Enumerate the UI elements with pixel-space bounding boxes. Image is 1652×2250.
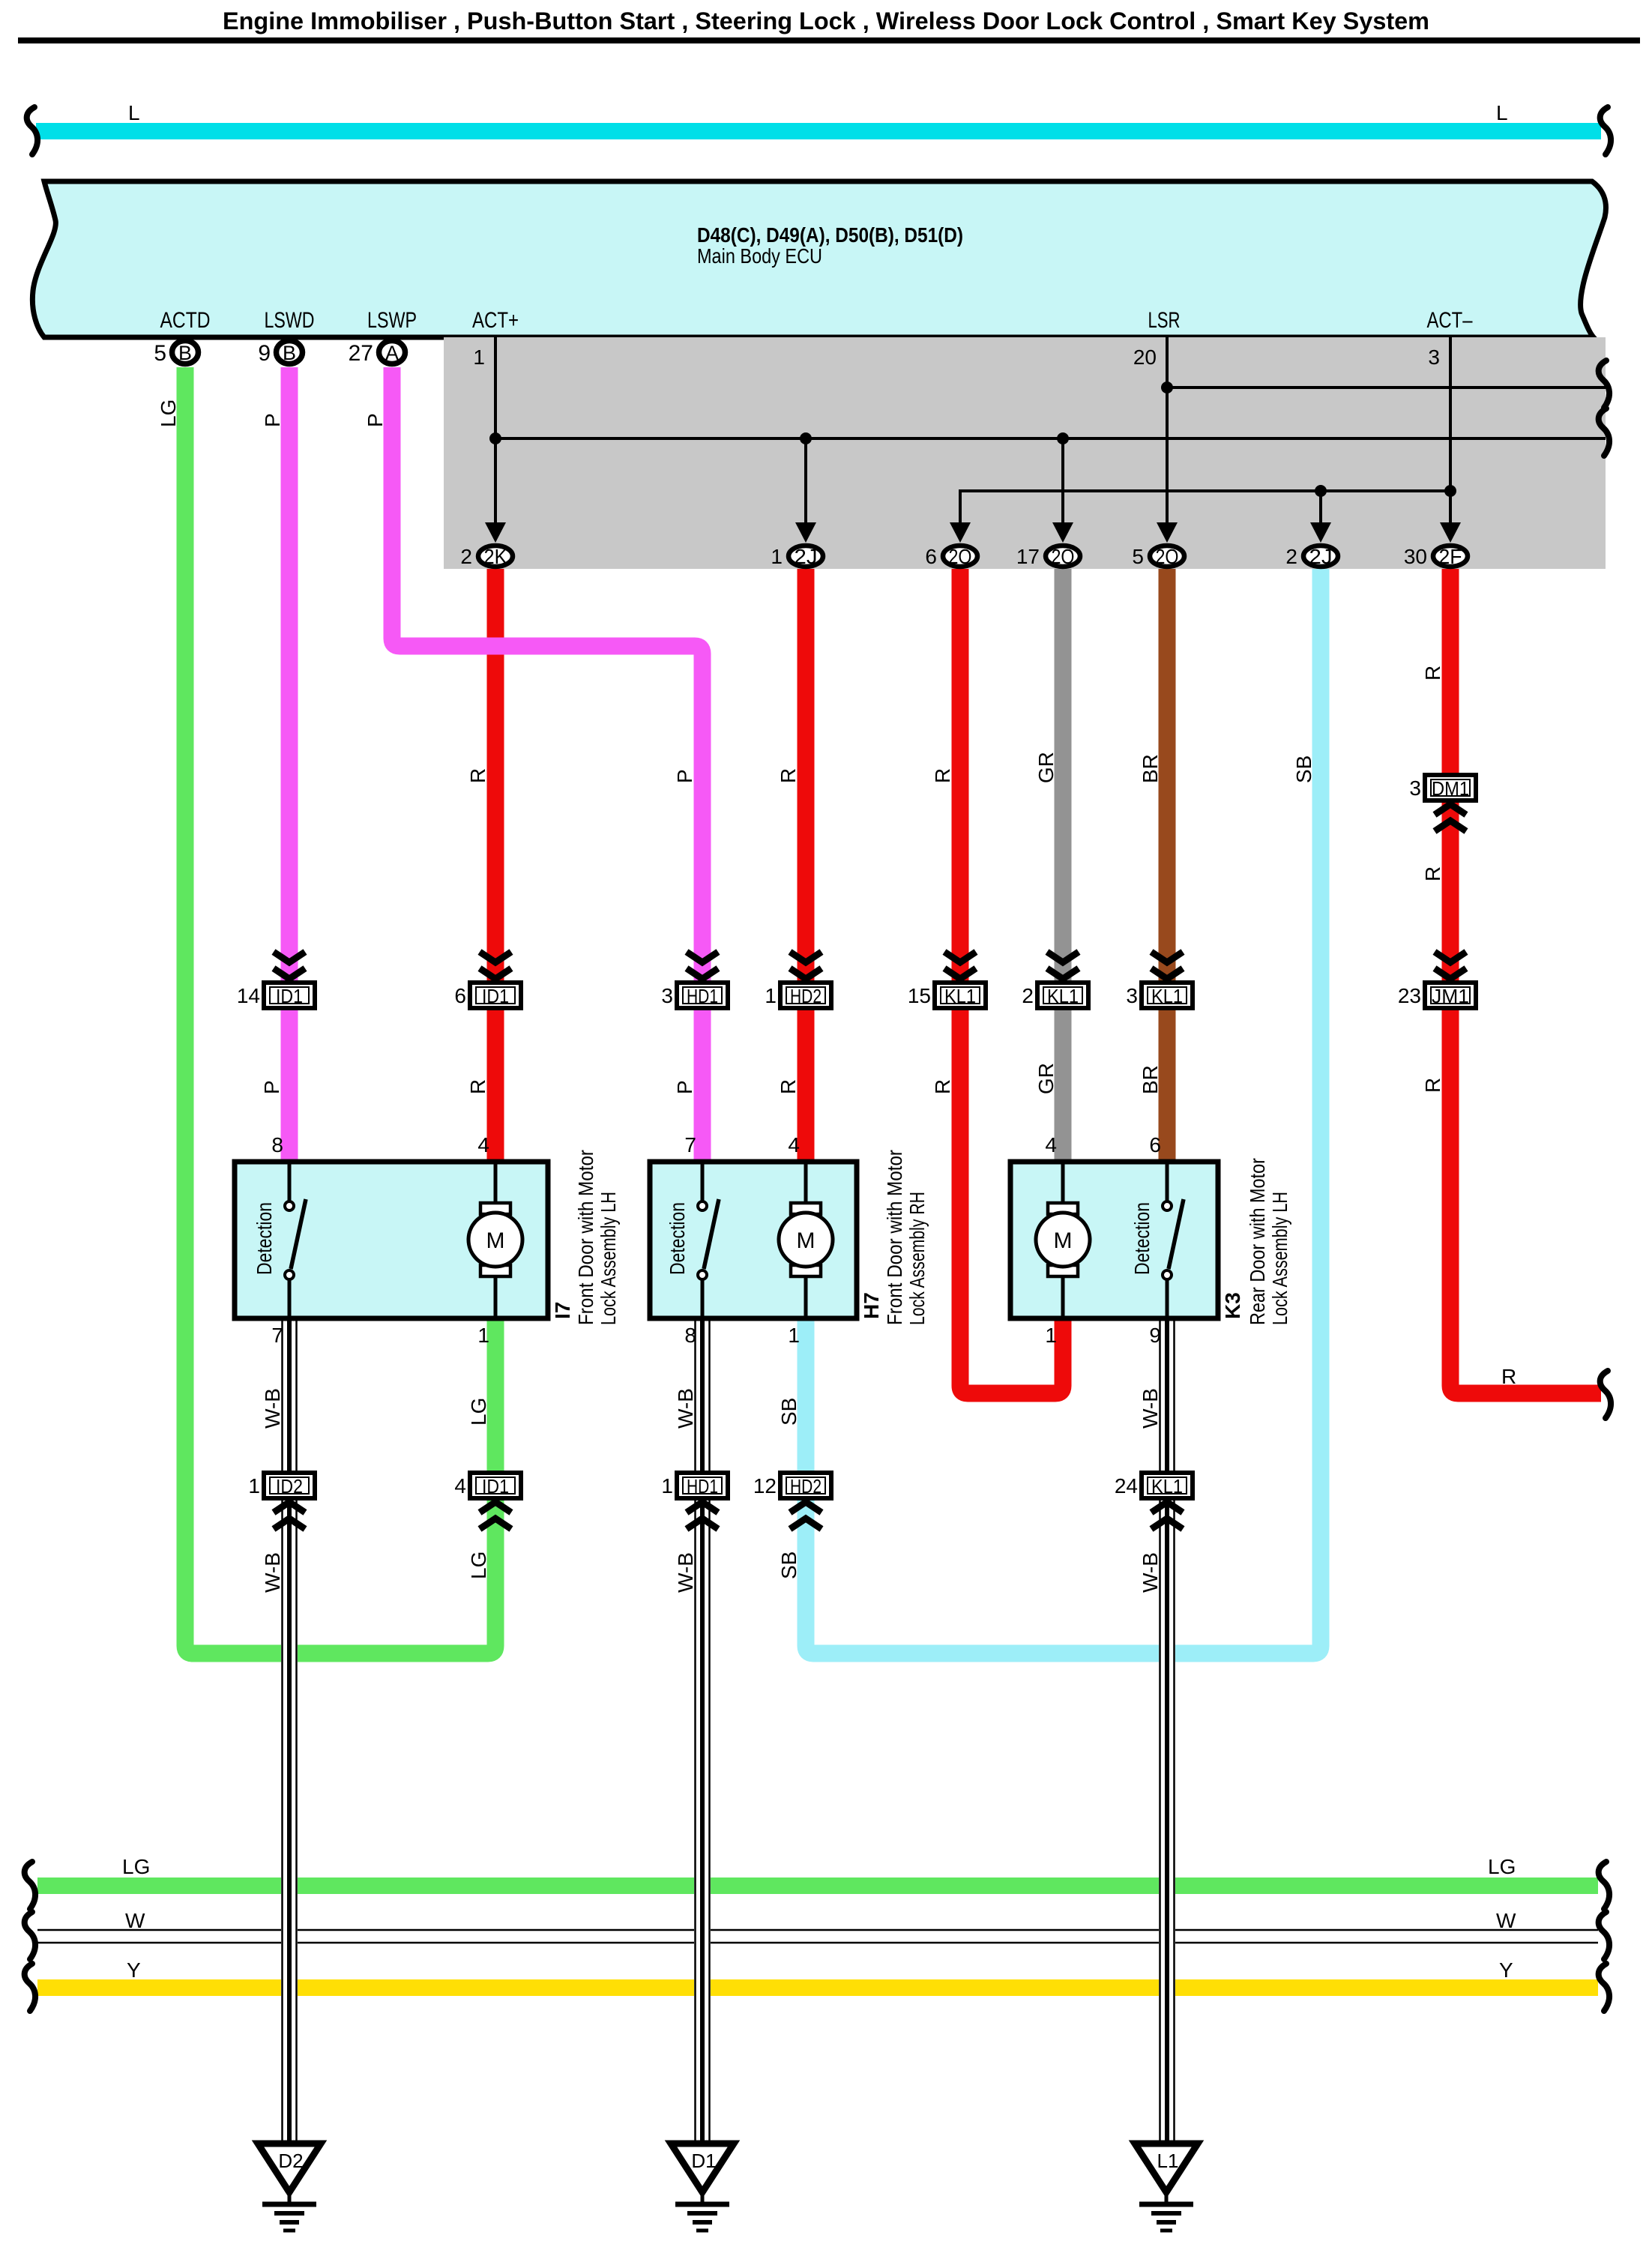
svg-text:R: R [931, 1079, 954, 1094]
svg-text:P: P [261, 413, 284, 427]
svg-text:P: P [364, 413, 387, 427]
svg-text:ACT–: ACT– [1427, 308, 1473, 333]
svg-text:1: 1 [248, 1474, 260, 1498]
svg-text:5: 5 [154, 341, 166, 366]
svg-text:D2: D2 [278, 2150, 303, 2172]
svg-text:L: L [1496, 101, 1508, 124]
svg-text:7: 7 [684, 1133, 696, 1156]
svg-text:5: 5 [1132, 545, 1144, 568]
svg-text:2O: 2O [1052, 545, 1075, 568]
svg-text:M: M [1054, 1228, 1073, 1253]
svg-text:Engine Immobiliser , Push-Butt: Engine Immobiliser , Push-Button Start ,… [223, 7, 1429, 34]
svg-text:W-B: W-B [261, 1388, 284, 1429]
svg-text:3: 3 [1409, 776, 1421, 800]
svg-text:30: 30 [1404, 545, 1427, 568]
svg-text:HD1: HD1 [687, 1475, 718, 1498]
svg-text:4: 4 [788, 1133, 800, 1156]
svg-text:R: R [1421, 666, 1444, 681]
svg-text:GR: GR [1034, 1063, 1058, 1094]
svg-text:W: W [1496, 1909, 1516, 1932]
svg-text:D1: D1 [691, 2150, 716, 2172]
svg-text:LSWP: LSWP [367, 308, 417, 333]
svg-text:ID1: ID1 [276, 985, 303, 1007]
svg-text:9: 9 [1149, 1324, 1161, 1347]
svg-text:Front Door with Motor: Front Door with Motor [574, 1150, 597, 1325]
svg-text:4: 4 [477, 1133, 489, 1156]
svg-text:Y: Y [127, 1958, 141, 1982]
svg-text:3: 3 [1126, 984, 1138, 1007]
svg-text:B: B [178, 342, 192, 364]
svg-text:6: 6 [925, 545, 937, 568]
svg-text:W-B: W-B [674, 1388, 697, 1429]
svg-text:LG: LG [467, 1398, 490, 1426]
svg-text:2O: 2O [1156, 545, 1179, 568]
svg-text:1: 1 [477, 1324, 489, 1347]
svg-text:R: R [1501, 1365, 1516, 1388]
svg-text:LSR: LSR [1148, 308, 1181, 333]
svg-text:DM1: DM1 [1432, 777, 1469, 800]
svg-text:L: L [128, 101, 140, 124]
svg-text:12: 12 [753, 1474, 777, 1498]
svg-text:HD2: HD2 [790, 1475, 822, 1498]
svg-text:Main Body ECU: Main Body ECU [697, 244, 822, 268]
svg-text:6: 6 [1149, 1133, 1161, 1156]
svg-text:6: 6 [454, 984, 466, 1007]
svg-text:JM1: JM1 [1432, 985, 1469, 1007]
svg-text:Detection: Detection [1130, 1202, 1154, 1275]
svg-text:Lock Assembly RH: Lock Assembly RH [905, 1192, 929, 1325]
svg-text:ID2: ID2 [276, 1475, 303, 1498]
svg-text:KL1: KL1 [944, 985, 976, 1007]
svg-text:24: 24 [1115, 1474, 1138, 1498]
svg-text:Lock Assembly LH: Lock Assembly LH [597, 1192, 620, 1325]
svg-text:R: R [777, 1079, 800, 1094]
svg-text:ID1: ID1 [482, 985, 509, 1007]
svg-text:2F: 2F [1439, 545, 1462, 568]
svg-text:KL1: KL1 [1151, 985, 1183, 1007]
svg-text:8: 8 [271, 1133, 283, 1156]
svg-text:2O: 2O [949, 545, 972, 568]
svg-text:A: A [385, 342, 399, 364]
svg-text:2: 2 [1285, 545, 1297, 568]
svg-text:Detection: Detection [253, 1202, 276, 1275]
svg-text:SB: SB [1292, 755, 1315, 783]
svg-text:LSWD: LSWD [265, 308, 315, 333]
svg-text:R: R [1421, 1078, 1444, 1093]
svg-text:Front Door with Motor: Front Door with Motor [883, 1150, 906, 1325]
svg-text:3: 3 [1428, 346, 1440, 369]
svg-text:M: M [797, 1228, 816, 1253]
svg-text:BR: BR [1139, 1065, 1162, 1094]
svg-text:ACT+: ACT+ [472, 308, 519, 333]
svg-text:Lock Assembly LH: Lock Assembly LH [1268, 1192, 1291, 1325]
svg-text:LG: LG [1488, 1855, 1516, 1878]
svg-text:2J: 2J [795, 545, 818, 568]
svg-text:1: 1 [1045, 1324, 1057, 1347]
svg-text:K3: K3 [1221, 1292, 1244, 1319]
svg-text:2J: 2J [1309, 545, 1333, 568]
svg-text:HD2: HD2 [790, 985, 822, 1007]
svg-text:KL1: KL1 [1151, 1475, 1183, 1498]
svg-text:GR: GR [1034, 752, 1058, 783]
svg-text:2K: 2K [484, 545, 507, 568]
svg-text:14: 14 [237, 984, 260, 1007]
svg-text:R: R [466, 1079, 489, 1094]
svg-text:2: 2 [460, 545, 472, 568]
svg-text:W: W [125, 1909, 145, 1932]
svg-text:27: 27 [349, 341, 373, 366]
svg-text:B: B [283, 342, 296, 364]
svg-text:15: 15 [908, 984, 931, 1007]
svg-text:LG: LG [122, 1855, 150, 1878]
svg-text:ID1: ID1 [482, 1475, 509, 1498]
svg-text:P: P [673, 1080, 696, 1094]
svg-text:P: P [260, 1080, 283, 1094]
svg-text:20: 20 [1133, 346, 1157, 369]
svg-text:L1: L1 [1157, 2150, 1179, 2172]
svg-text:Rear Door with Motor: Rear Door with Motor [1246, 1158, 1269, 1325]
svg-text:3: 3 [661, 984, 673, 1007]
svg-text:Detection: Detection [666, 1202, 689, 1275]
svg-text:17: 17 [1016, 545, 1040, 568]
svg-text:W-B: W-B [1139, 1552, 1162, 1593]
svg-text:P: P [673, 769, 696, 783]
svg-text:M: M [486, 1228, 505, 1253]
svg-text:R: R [931, 768, 954, 783]
svg-text:I7: I7 [551, 1302, 574, 1319]
svg-text:H7: H7 [860, 1292, 883, 1319]
svg-text:9: 9 [258, 341, 271, 366]
svg-text:23: 23 [1398, 984, 1421, 1007]
svg-text:R: R [466, 768, 489, 783]
svg-text:1: 1 [661, 1474, 673, 1498]
svg-text:W-B: W-B [674, 1552, 697, 1593]
svg-text:4: 4 [454, 1474, 466, 1498]
svg-text:2: 2 [1022, 984, 1034, 1007]
svg-text:W-B: W-B [261, 1552, 284, 1593]
svg-text:LG: LG [467, 1551, 490, 1579]
svg-text:KL1: KL1 [1047, 985, 1079, 1007]
svg-text:7: 7 [271, 1324, 283, 1347]
svg-text:D48(C), D49(A), D50(B), D51(D): D48(C), D49(A), D50(B), D51(D) [697, 223, 963, 247]
svg-text:W-B: W-B [1139, 1388, 1162, 1429]
svg-text:1: 1 [473, 346, 485, 369]
svg-text:8: 8 [684, 1324, 696, 1347]
svg-text:SB: SB [777, 1551, 801, 1579]
svg-text:BR: BR [1139, 754, 1162, 783]
svg-text:1: 1 [765, 984, 777, 1007]
svg-text:ACTD: ACTD [160, 308, 211, 333]
svg-text:Y: Y [1499, 1958, 1513, 1982]
svg-text:HD1: HD1 [687, 985, 718, 1007]
svg-text:LG: LG [157, 399, 180, 427]
svg-text:R: R [1421, 866, 1444, 881]
svg-text:R: R [777, 768, 800, 783]
svg-text:4: 4 [1045, 1133, 1057, 1156]
svg-text:SB: SB [777, 1398, 801, 1426]
svg-text:1: 1 [771, 545, 783, 568]
svg-text:1: 1 [788, 1324, 800, 1347]
